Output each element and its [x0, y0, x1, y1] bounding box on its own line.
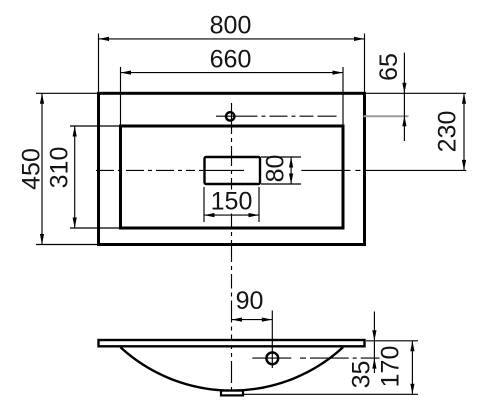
svg-text:170: 170	[377, 346, 405, 388]
svg-text:800: 800	[210, 12, 252, 40]
svg-text:90: 90	[236, 287, 264, 315]
svg-text:450: 450	[18, 148, 46, 190]
svg-text:660: 660	[210, 46, 252, 74]
svg-text:35: 35	[348, 361, 376, 389]
svg-text:65: 65	[375, 53, 403, 81]
svg-text:150: 150	[211, 188, 253, 216]
svg-text:80: 80	[262, 155, 290, 183]
svg-text:230: 230	[434, 111, 462, 153]
svg-text:310: 310	[46, 147, 74, 189]
